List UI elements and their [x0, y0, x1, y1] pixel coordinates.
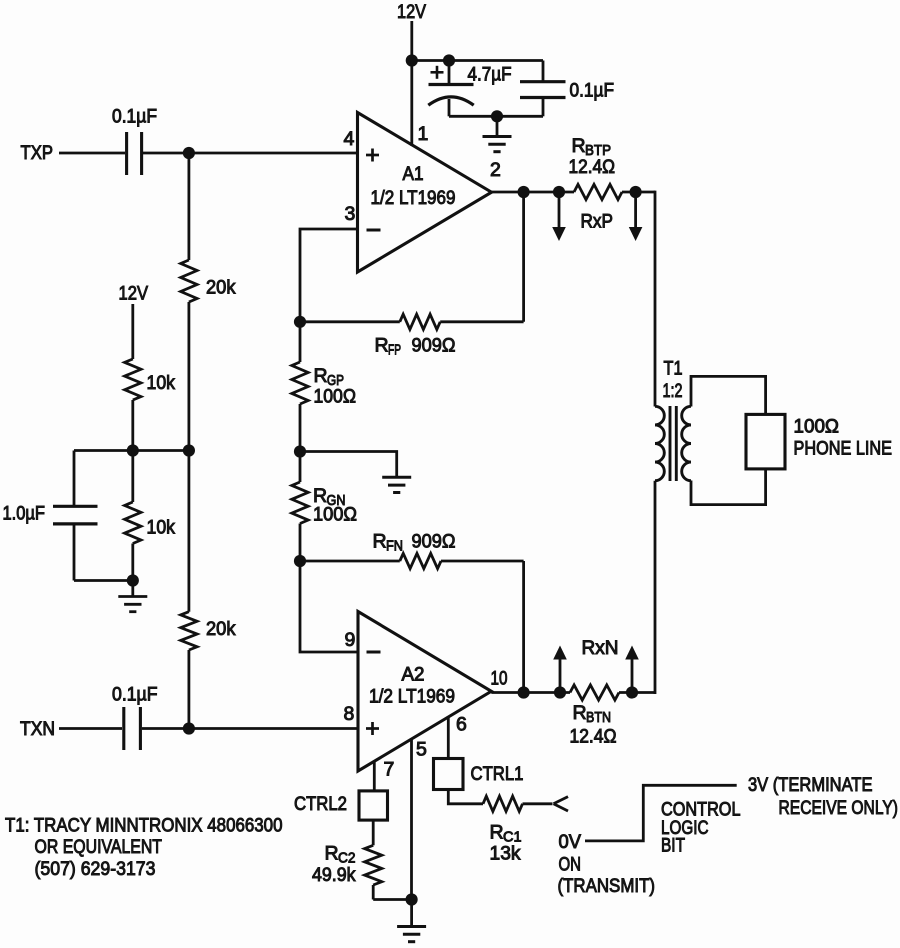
svg-text:4: 4	[344, 128, 355, 150]
svg-text:5: 5	[416, 739, 427, 761]
svg-text:(507) 629-3173: (507) 629-3173	[35, 858, 156, 880]
ground (center)	[382, 477, 411, 492]
node: supply ground tap	[491, 110, 503, 122]
svg-text:20k: 20k	[206, 277, 236, 299]
wire TXN lead	[59, 727, 122, 730]
label RC1	[490, 822, 522, 846]
node: RGN/RFN junction	[294, 555, 306, 567]
polarity + of 4.7uF	[431, 66, 444, 79]
svg-text:1/2 LT1969: 1/2 LT1969	[371, 187, 456, 209]
label CONTROL	[661, 799, 741, 821]
svg-text:12.4Ω: 12.4Ω	[570, 726, 617, 748]
resistor RFP 909ohm	[300, 314, 524, 329]
wire 20k to mid junction	[187, 302, 190, 451]
wire RBTP to transformer	[622, 191, 655, 194]
pin 3 label	[345, 203, 356, 225]
resistor RGN 100ohm	[292, 452, 308, 562]
wire TXN to A2 pin8	[142, 727, 358, 730]
note T1 line 3	[35, 858, 156, 880]
svg-text:T1: TRACY MINNTRONIX 48066300: T1: TRACY MINNTRONIX 48066300	[5, 815, 283, 837]
node: RxN left node	[554, 686, 566, 698]
node: TXN junction	[183, 722, 195, 734]
node: 12V rail junction	[406, 54, 418, 66]
wire cap branch left/down	[73, 451, 76, 507]
label 13k	[490, 843, 521, 865]
label RBTP	[572, 135, 612, 159]
resistor RC1 13k	[448, 790, 552, 812]
wire center column to A2 pin9	[300, 561, 358, 652]
wire TXP junction down	[187, 153, 190, 260]
svg-text:1:2: 1:2	[663, 380, 683, 402]
svg-text:13k: 13k	[490, 843, 521, 865]
svg-text:3V (TERMINATE: 3V (TERMINATE	[748, 774, 873, 796]
wire 12V stem	[410, 21, 413, 61]
resistor 10k (upper)	[125, 359, 141, 400]
capacitor 0.1uF (TXN coupling)	[124, 707, 141, 750]
label RBTN value	[570, 726, 617, 748]
svg-text:1.0µF: 1.0µF	[3, 503, 46, 525]
resistor RBTN 12.4ohm	[570, 685, 619, 700]
resistor 20k (top)	[181, 260, 197, 302]
connector open (RC1 end)	[554, 797, 569, 811]
label 1/2 LT1969 (A1)	[371, 187, 456, 209]
label 0.1uF (supply)	[570, 80, 615, 102]
svg-text:FP: FP	[388, 342, 401, 359]
wire A2 pin6 stem	[447, 716, 450, 759]
node: RFP/RGP junction	[294, 316, 306, 328]
label TXN	[20, 718, 55, 740]
wire cap to ground rail	[74, 524, 133, 581]
label TXP	[21, 142, 54, 164]
pin 7 label	[384, 759, 395, 781]
label PHONE LINE	[794, 438, 893, 460]
label RGN 100	[313, 504, 357, 526]
svg-text:49.9k: 49.9k	[312, 864, 356, 886]
label 100ohm	[794, 416, 840, 438]
label LOGIC	[661, 817, 709, 839]
wire RFP up to A1 output	[522, 192, 525, 322]
label 10k (upper)	[147, 372, 176, 394]
node: RxP right node	[630, 186, 642, 198]
label 0.1uF (TXN)	[112, 684, 158, 706]
svg-text:12V: 12V	[397, 1, 426, 23]
node: pin5/RC2 ground junction	[406, 893, 418, 905]
svg-text:RxN: RxN	[582, 637, 619, 659]
svg-text:R: R	[572, 135, 586, 157]
op-amp A1 1/2 LT1969	[358, 113, 492, 273]
node: RxN right node	[626, 686, 638, 698]
wire RBTN to transformer	[619, 691, 655, 694]
svg-text:12.4Ω: 12.4Ω	[569, 156, 616, 178]
wire supply bottom rail	[449, 115, 543, 118]
resistor RBTP 12.4ohm	[574, 184, 622, 199]
label RxP	[581, 211, 614, 233]
label ON	[559, 854, 582, 876]
svg-text:BTN: BTN	[586, 709, 611, 726]
label 1:2	[663, 380, 683, 402]
label 1.0uF	[3, 503, 46, 525]
wire A2 pin7 stem	[373, 761, 376, 791]
svg-text:ON: ON	[559, 854, 582, 876]
label CTRL1	[471, 763, 524, 785]
note T1 line 1	[5, 815, 283, 837]
svg-text:R: R	[490, 822, 504, 844]
node: A1 out junction	[518, 186, 530, 198]
node: 20k column junction	[183, 444, 195, 456]
wire control logic	[585, 785, 737, 841]
A2 noninverting + mark	[366, 722, 379, 735]
svg-text:909Ω: 909Ω	[412, 335, 456, 357]
label 49.9k	[312, 864, 356, 886]
svg-text:CTRL2: CTRL2	[294, 793, 347, 815]
svg-text:A2: A2	[402, 664, 425, 686]
label RFP 909	[375, 335, 456, 359]
resistor RGP 100ohm	[292, 322, 308, 452]
wire TXP lead	[59, 152, 125, 155]
node: 4.7uF top tap	[443, 54, 455, 66]
svg-text:100Ω: 100Ω	[794, 416, 840, 438]
pin 10 label	[491, 668, 508, 690]
svg-text:909Ω: 909Ω	[412, 531, 456, 553]
svg-text:BIT: BIT	[661, 835, 685, 857]
label A2	[402, 664, 425, 686]
svg-text:T1: T1	[664, 358, 683, 380]
svg-text:R: R	[373, 531, 387, 553]
svg-text:7: 7	[384, 759, 395, 781]
svg-text:8: 8	[344, 703, 355, 725]
control block CTRL2	[359, 791, 388, 820]
svg-text:FN: FN	[386, 538, 403, 555]
pin 4 label	[344, 128, 355, 150]
label RBTN	[573, 702, 612, 726]
wire A2 pin5 stem	[410, 738, 413, 900]
svg-text:2: 2	[490, 159, 501, 181]
svg-text:TXP: TXP	[21, 142, 54, 164]
wire top supply rail	[412, 59, 543, 62]
capacitor 1.0uF	[53, 506, 98, 524]
wire mid junction down	[187, 451, 190, 612]
wire transformer primary top drop	[654, 191, 657, 407]
resistor RFN 909ohm	[300, 553, 524, 568]
svg-text:R: R	[375, 335, 389, 357]
svg-text:PHONE LINE: PHONE LINE	[794, 438, 893, 460]
pin 6 label	[456, 714, 467, 736]
wire secondary bottom loop	[691, 469, 766, 505]
ground (A2 bottom)	[397, 900, 426, 942]
svg-text:10k: 10k	[147, 517, 176, 539]
svg-text:0.1µF: 0.1µF	[570, 80, 615, 102]
resistor RC2 49.9k	[365, 820, 382, 899]
svg-text:CTRL1: CTRL1	[471, 763, 524, 785]
label 10k (lower)	[147, 517, 176, 539]
power 12V label (top)	[397, 1, 426, 23]
label A1	[403, 163, 424, 185]
svg-text:1/2 LT1969: 1/2 LT1969	[369, 686, 455, 708]
node: TXP junction	[183, 147, 195, 159]
A1 noninverting + mark	[366, 149, 379, 162]
svg-text:0V: 0V	[559, 831, 582, 853]
pin 2 label	[490, 159, 501, 181]
node: RxP left node	[553, 186, 565, 198]
label 0.1uF (TXP)	[112, 106, 157, 128]
control block CTRL1	[434, 759, 464, 790]
svg-text:10: 10	[491, 668, 508, 690]
label RFN 909	[373, 531, 456, 555]
node: bias divider junction	[127, 444, 139, 456]
transformer T1 secondary winding	[682, 406, 691, 480]
label 20k (bottom)	[206, 618, 236, 640]
ground (supply bypass)	[483, 116, 512, 151]
wire A1 output	[492, 191, 575, 194]
op-amp A2 1/2 LT1969	[358, 612, 491, 772]
svg-text:1: 1	[418, 123, 429, 145]
note T1 line 2	[35, 836, 163, 858]
transformer T1 primary winding	[655, 406, 664, 480]
svg-text:100Ω: 100Ω	[314, 386, 357, 408]
svg-text:12V: 12V	[119, 283, 149, 305]
label 20k (top)	[206, 277, 236, 299]
label RGP 100	[314, 386, 357, 408]
pin 8 label	[344, 703, 355, 725]
wire 12V bias stem	[131, 304, 134, 359]
label CTRL2	[294, 793, 347, 815]
node: bias ground junction	[127, 574, 139, 586]
pin 9 label	[345, 629, 356, 651]
arrow RxN left	[553, 646, 567, 692]
wire RFN down to A2 output	[522, 561, 525, 693]
wire A2 output	[491, 691, 570, 694]
resistor 10k (lower)	[125, 451, 141, 581]
svg-text:R: R	[325, 843, 339, 865]
label (TRANSMIT)	[558, 875, 656, 897]
capacitor C_bypass 4.7uF (polarized)	[428, 61, 473, 117]
capacitor C_bypass2 0.1uF	[520, 61, 566, 117]
label 4.7uF	[468, 64, 512, 86]
svg-text:A1: A1	[403, 163, 424, 185]
svg-text:20k: 20k	[206, 618, 236, 640]
svg-text:0.1µF: 0.1µF	[112, 684, 158, 706]
svg-text:TXN: TXN	[20, 718, 55, 740]
pin 5 label	[416, 739, 427, 761]
label RBTP value	[569, 156, 616, 178]
wire transformer primary bottom drop	[654, 481, 657, 694]
label RECEIVE ONLY)	[779, 797, 899, 819]
svg-text:3: 3	[345, 203, 356, 225]
svg-text:0.1µF: 0.1µF	[112, 106, 157, 128]
arrow RxP right	[629, 193, 643, 241]
svg-text:10k: 10k	[147, 372, 176, 394]
resistor 100ohm phone line (box)	[746, 414, 785, 469]
wire center ground tap	[300, 452, 397, 478]
label RxN	[582, 637, 619, 659]
svg-text:R: R	[573, 702, 587, 724]
svg-text:RxP: RxP	[581, 211, 614, 233]
svg-text:(TRANSMIT): (TRANSMIT)	[558, 875, 656, 897]
svg-text:6: 6	[456, 714, 467, 736]
A2 inverting - mark	[367, 651, 381, 654]
wire 20k to TXN junction	[187, 650, 190, 729]
arrow RxN right	[625, 646, 639, 692]
svg-text:OR EQUIVALENT: OR EQUIVALENT	[35, 836, 163, 858]
wire RC2 to ground node	[373, 898, 411, 901]
svg-text:4.7µF: 4.7µF	[468, 64, 512, 86]
wire TXP to A1 pin4	[143, 152, 358, 155]
label 3V (TERMINATE	[748, 774, 873, 796]
wire bias junction row	[74, 449, 189, 452]
label RC2	[325, 843, 356, 867]
wire 10k to junction	[131, 400, 134, 451]
wire pin1 stem	[410, 61, 413, 147]
wire A1 pin3 to node	[300, 229, 358, 322]
capacitor 0.1uF (TXP coupling)	[127, 132, 142, 175]
svg-text:9: 9	[345, 629, 356, 651]
label 1/2 LT1969 (A2)	[369, 686, 455, 708]
wire secondary top loop	[691, 376, 766, 414]
svg-text:RECEIVE ONLY): RECEIVE ONLY)	[779, 797, 899, 819]
label RGP	[314, 365, 345, 389]
ground (bias)	[118, 581, 147, 612]
svg-text:100Ω: 100Ω	[313, 504, 357, 526]
node: A2 out junction	[518, 686, 530, 698]
label 0V	[559, 831, 582, 853]
pin 1 label	[418, 123, 429, 145]
svg-text:R: R	[314, 365, 328, 387]
arrow RxP left	[552, 193, 566, 241]
A1 inverting - mark	[367, 229, 381, 232]
label BIT	[661, 835, 685, 857]
transformer T1 core	[670, 406, 676, 481]
resistor 20k (bottom)	[181, 612, 197, 650]
label 12V (bias)	[119, 283, 149, 305]
label T1	[664, 358, 683, 380]
label RGN	[313, 485, 346, 509]
node: RGP/RGN junction	[294, 445, 306, 457]
